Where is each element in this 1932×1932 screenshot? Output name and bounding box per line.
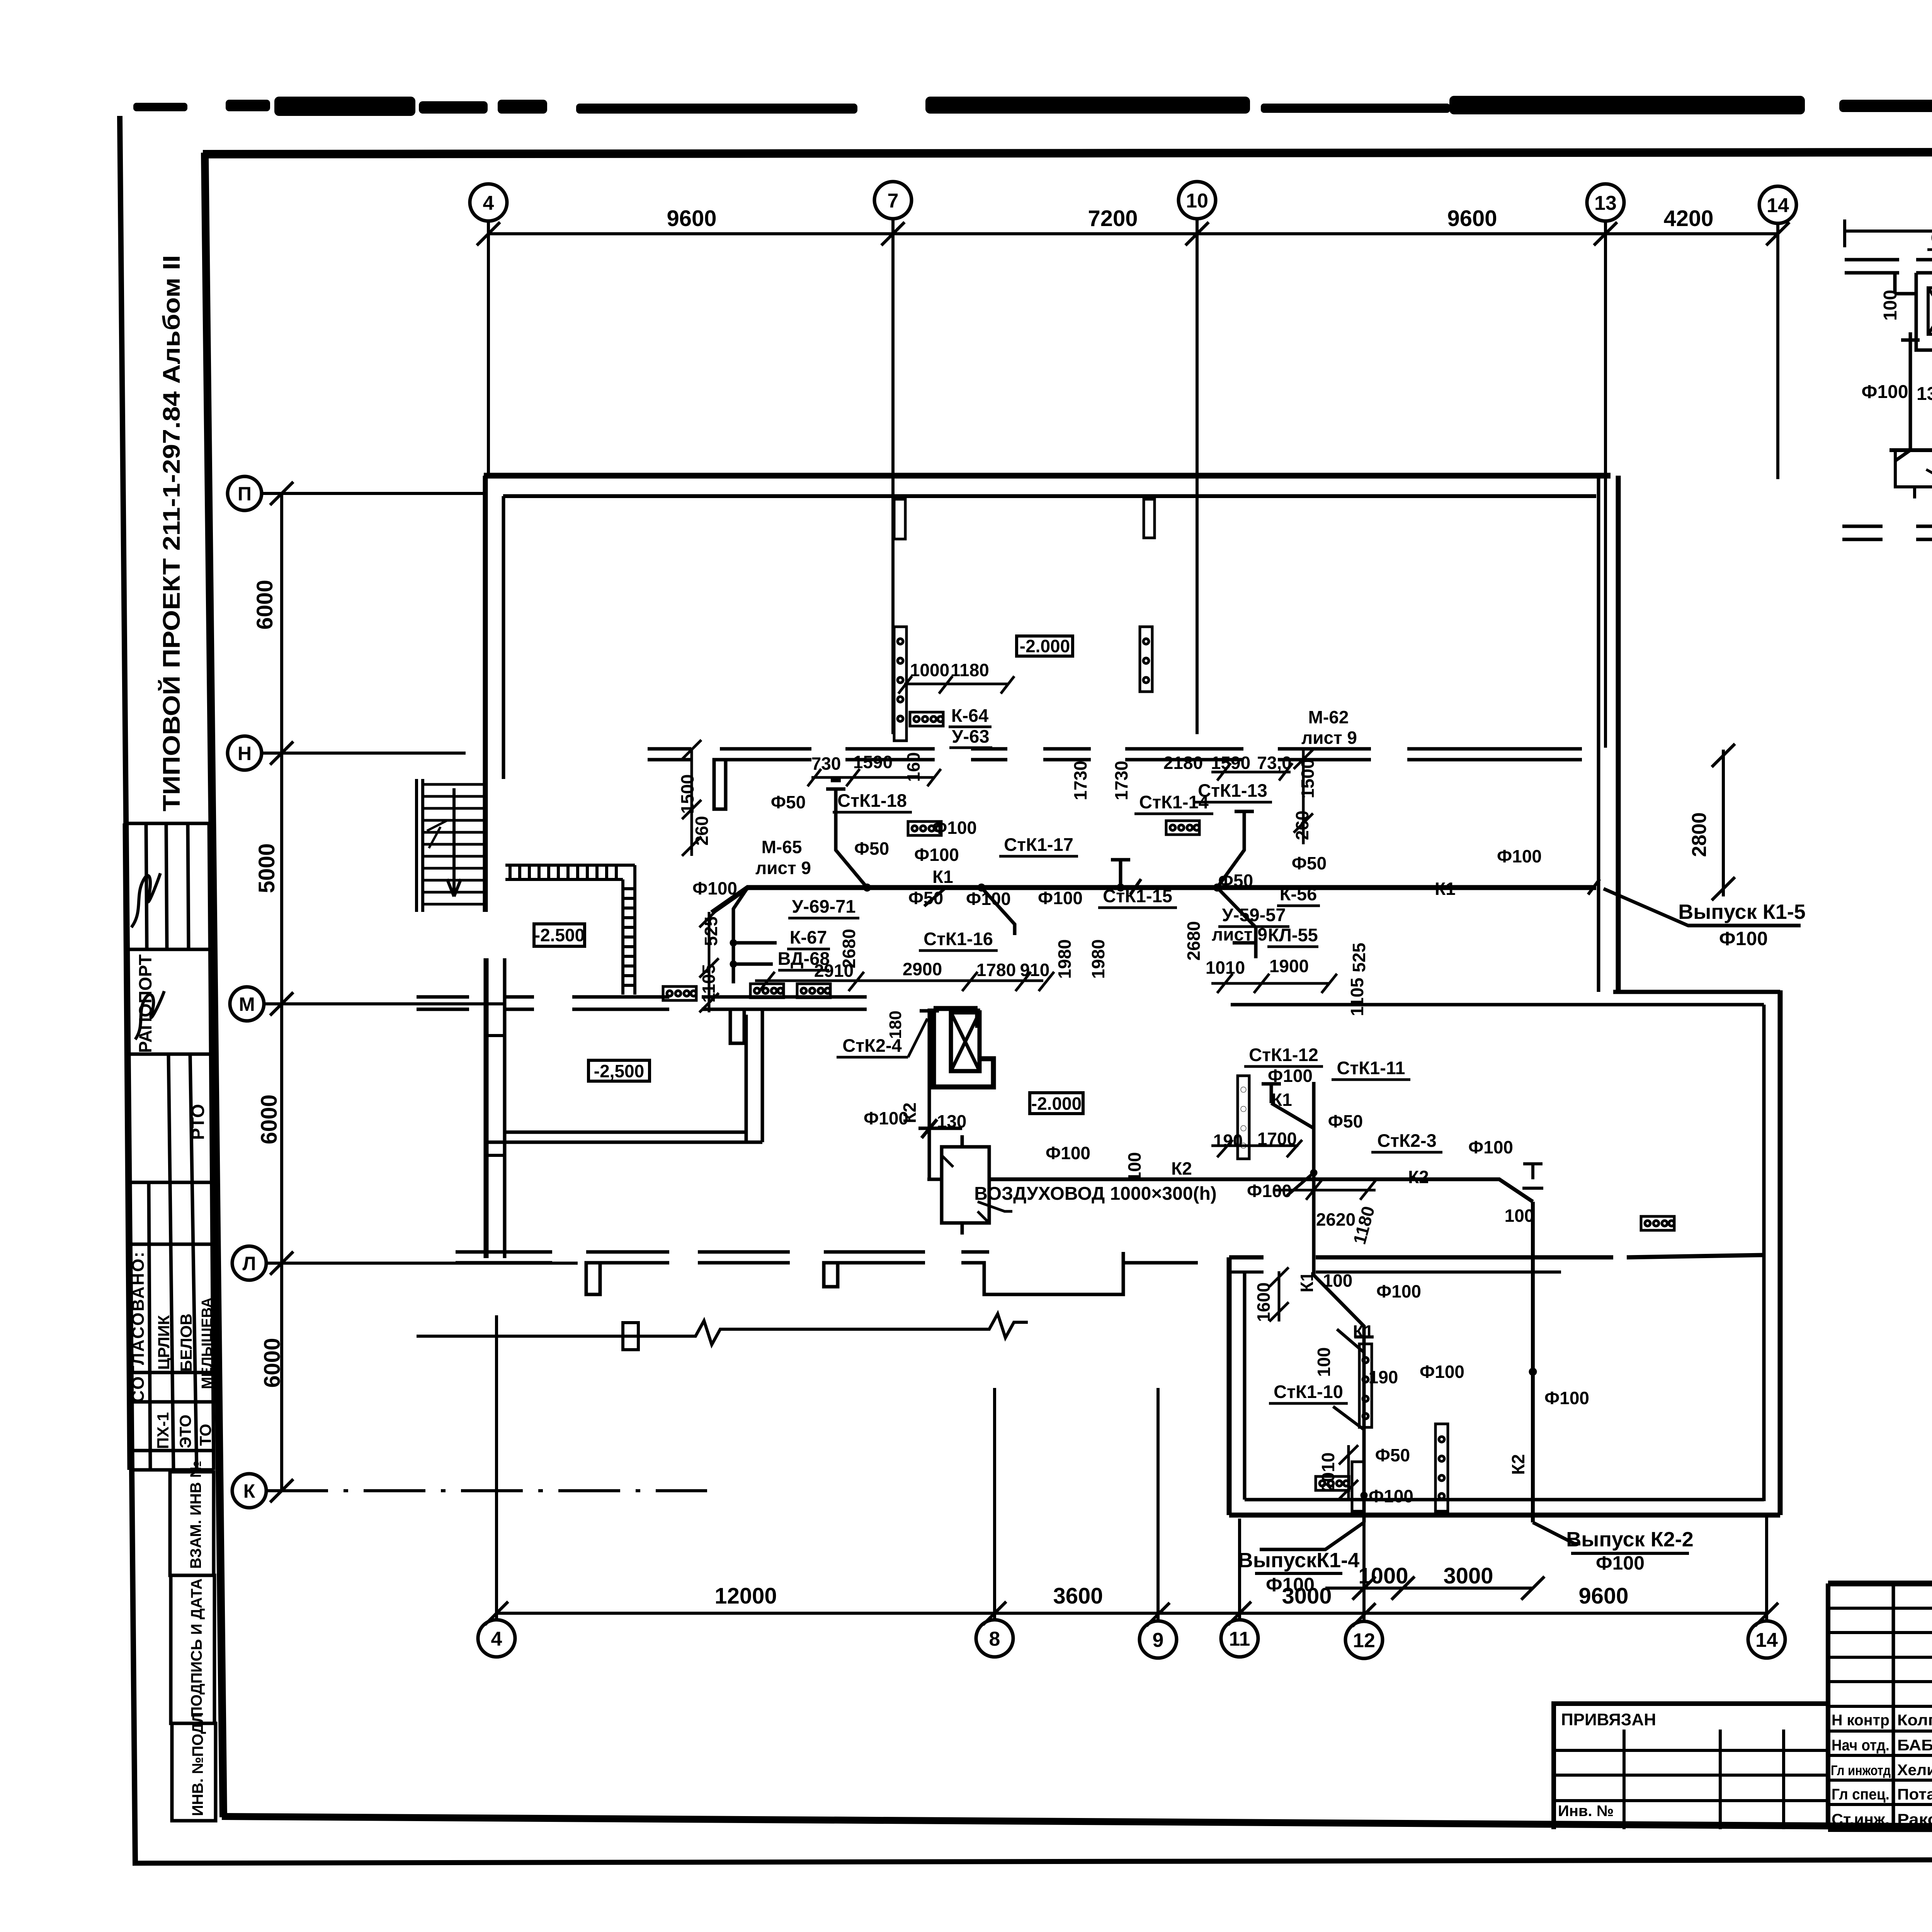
inner frame top	[203, 151, 1932, 154]
dim line 190-1700	[1211, 1140, 1302, 1157]
svg-text:Ф50: Ф50	[854, 838, 889, 859]
svg-text:73,0: 73,0	[1257, 753, 1292, 773]
room bottom wall outer	[1229, 1513, 1780, 1518]
K1 lower riser tee top	[1262, 1084, 1314, 1128]
sig row 6	[1828, 1730, 1932, 1733]
wall right upper outer	[1616, 476, 1621, 990]
hatched wall top band	[505, 865, 635, 879]
svg-text:ЦРЛИК: ЦРЛИК	[155, 1315, 173, 1370]
sig row 4	[1828, 1680, 1932, 1683]
row N pier wall e	[1043, 749, 1091, 760]
svg-text:100: 100	[1505, 1206, 1534, 1226]
svg-text:СтК2-3: СтК2-3	[1377, 1130, 1437, 1151]
row M wall seg c	[572, 997, 669, 1009]
svg-text:8: 8	[989, 1628, 1000, 1650]
K1 lower branch b	[1337, 1329, 1374, 1360]
east wing top inner	[1231, 1003, 1764, 1007]
svg-text:Л: Л	[242, 1253, 256, 1274]
svg-text:Ст.инж.: Ст.инж.	[1832, 1811, 1889, 1828]
svg-text:РАПОПОРТ: РАПОПОРТ	[135, 954, 155, 1053]
east wing right outer	[1778, 990, 1783, 1515]
sub tick c	[1521, 1577, 1544, 1600]
wall top outer	[484, 473, 1611, 479]
svg-text:1000: 1000	[1358, 1563, 1408, 1588]
svg-text:910: 910	[1020, 960, 1050, 980]
sig row 1	[1828, 1607, 1932, 1610]
tick 4 bottom	[485, 1602, 508, 1625]
svg-text:1500: 1500	[677, 774, 697, 814]
riser strip room a	[1359, 1344, 1372, 1427]
dim line 2910 row	[755, 972, 1054, 991]
svg-text:К-56: К-56	[1280, 884, 1317, 904]
svg-text:3000: 3000	[1443, 1563, 1493, 1588]
svg-text:9600: 9600	[1447, 206, 1497, 231]
leader vozduhovod	[978, 1202, 1012, 1211]
fixture box 6	[1166, 821, 1199, 835]
svg-text:100: 100	[1314, 1347, 1334, 1377]
svg-text:К-64: К-64	[951, 705, 989, 726]
stair cut mark	[427, 820, 448, 848]
svg-text:МЕЛЫШЕВА: МЕЛЫШЕВА	[199, 1298, 215, 1389]
scan band top 9	[1449, 96, 1805, 114]
axis circle 14 top	[1759, 186, 1796, 223]
sub dimension line bottom	[1325, 1587, 1533, 1590]
stamp table col line 4	[188, 823, 197, 1470]
axis line P	[262, 492, 483, 495]
svg-text:Ф50: Ф50	[1292, 853, 1327, 873]
scan band top 6	[576, 104, 857, 114]
K1 dot left cluster a	[730, 939, 737, 946]
riser strip room c	[1352, 1462, 1364, 1511]
sig row 2	[1828, 1631, 1932, 1634]
svg-text:Ф100: Ф100	[1497, 846, 1542, 866]
svg-text:4200: 4200	[1663, 206, 1713, 231]
stamp table row line 2	[125, 948, 210, 951]
svg-text:У-59-57: У-59-57	[1222, 905, 1286, 925]
svg-text:1590: 1590	[853, 752, 893, 772]
elevation box -2.000 mid	[1030, 1093, 1083, 1114]
stamp table row line 9	[130, 1468, 214, 1472]
svg-text:4: 4	[491, 1628, 502, 1650]
row N pier wall g	[1278, 749, 1371, 760]
svg-text:Ф100: Ф100	[966, 889, 1011, 909]
svg-text:К: К	[243, 1480, 255, 1502]
svg-text:-2,500: -2,500	[594, 1061, 644, 1081]
K1 lower dot b	[1361, 1492, 1367, 1499]
svg-text:Ф100: Ф100	[1247, 1181, 1292, 1201]
svg-text:-2.500: -2.500	[534, 925, 585, 945]
tick 14 top	[1766, 222, 1789, 245]
svg-text:Ф100: Ф100	[1268, 1066, 1313, 1086]
wall left pier tie 1	[486, 1034, 505, 1037]
axis line 4 bottom	[495, 1315, 498, 1620]
privyazan box	[1554, 1704, 1828, 1829]
variant duct stub	[1895, 450, 1932, 498]
svg-text:130: 130	[937, 1111, 967, 1131]
scan band top 7	[925, 97, 1250, 114]
room top wall outer seg3	[1627, 1255, 1764, 1257]
K1 riser StK1-18	[826, 781, 867, 888]
wall left outer upper	[483, 476, 488, 912]
svg-text:Ф100: Ф100	[1266, 1574, 1315, 1595]
svg-text:Ракова: Ракова	[1897, 1811, 1932, 1828]
inner frame left	[205, 153, 223, 1817]
axis line 7 top	[891, 219, 895, 734]
elevation box -2.500	[534, 924, 585, 946]
stamp table row line 1	[124, 822, 209, 825]
privyazan grid h2	[1554, 1774, 1828, 1777]
sig row 5	[1828, 1705, 1932, 1708]
sig table bottom	[1828, 1829, 1932, 1830]
axis line M	[264, 1002, 506, 1005]
sub room bottom wall	[486, 1132, 762, 1142]
svg-text:СтК1-17: СтК1-17	[1004, 834, 1073, 855]
scan band top 3	[274, 97, 415, 116]
svg-text:лист 9: лист 9	[755, 858, 811, 878]
break line lower left	[417, 1314, 1028, 1345]
svg-text:3600: 3600	[1053, 1583, 1103, 1609]
fixture box 1	[663, 986, 696, 1000]
wall right upper inner	[1597, 476, 1600, 992]
K1 dot left cluster b	[730, 961, 737, 968]
dim 2010 vert line	[1339, 1445, 1358, 1499]
axis circle M left	[230, 987, 264, 1021]
variant row L wall a	[1842, 526, 1883, 539]
svg-text:СтК1-16: СтК1-16	[923, 929, 993, 949]
svg-text:Гл спец.: Гл спец.	[1832, 1786, 1889, 1803]
svg-text:Ф100: Ф100	[914, 845, 959, 865]
privyazan grid v3	[1782, 1730, 1785, 1829]
svg-text:М: М	[239, 993, 255, 1015]
sig row 8	[1828, 1779, 1932, 1782]
stamp table row line 4	[127, 1181, 212, 1184]
row M wall seg d	[702, 997, 867, 1009]
room bottom wall inner	[1245, 1498, 1764, 1502]
K1 junction dot 2	[978, 884, 985, 891]
fixture box 4	[910, 712, 943, 726]
svg-text:1000: 1000	[910, 660, 949, 680]
svg-text:260: 260	[692, 816, 712, 846]
axis circle K left	[232, 1474, 266, 1508]
left dimension line	[280, 493, 283, 1491]
vypusk K1-4 leader	[1260, 1522, 1364, 1549]
svg-text:190: 190	[1369, 1367, 1398, 1387]
svg-text:2010: 2010	[1318, 1452, 1338, 1492]
wall left inner upper	[502, 496, 505, 779]
axis circle 12 bottom	[1345, 1621, 1383, 1658]
row L pier b	[586, 1252, 669, 1263]
svg-text:К1: К1	[1353, 1321, 1374, 1342]
K1 branch left cluster	[733, 888, 777, 983]
row N pier wall d	[971, 749, 1007, 760]
variant row L wall b	[1916, 526, 1932, 557]
room top wall inner seg1	[1229, 1270, 1264, 1274]
tick 10 top	[1185, 222, 1209, 245]
axis line 14 top	[1776, 223, 1779, 479]
K2 riser StK2-4	[918, 1009, 962, 1179]
axis line 13 top	[1604, 221, 1607, 748]
stamp table row line 6	[129, 1371, 213, 1374]
riser strip dots	[1241, 1087, 1246, 1092]
sig row 3	[1828, 1656, 1932, 1659]
room top wall inner seg2	[1316, 1270, 1561, 1274]
svg-text:СтК1-12: СтК1-12	[1249, 1044, 1318, 1065]
tick M	[270, 992, 293, 1015]
svg-text:14: 14	[1755, 1629, 1778, 1651]
svg-text:1600: 1600	[1253, 1282, 1274, 1322]
svg-text:6000: 6000	[257, 1094, 282, 1144]
dim line 1590-730 right	[1211, 763, 1293, 781]
svg-text:Ф50: Ф50	[1375, 1445, 1410, 1465]
svg-text:7200: 7200	[1088, 206, 1138, 231]
riser strip 1b	[894, 499, 905, 539]
sub tick b	[1391, 1577, 1415, 1600]
svg-text:-2.000: -2.000	[1020, 636, 1070, 656]
box PODPIS I DATA	[171, 1575, 214, 1723]
svg-text:730: 730	[811, 753, 841, 774]
axis circle P left	[228, 476, 262, 510]
svg-text:Гл инжотд: Гл инжотд	[1831, 1762, 1891, 1778]
svg-text:СтК1-4: СтК1-4	[1931, 228, 1932, 248]
fixture box 3	[797, 984, 830, 998]
pier stub row N	[714, 760, 726, 809]
svg-text:525: 525	[1349, 943, 1369, 973]
row N pier wall c	[845, 749, 935, 760]
stamp table row line 7	[129, 1400, 213, 1404]
axis line 10 top	[1196, 219, 1199, 734]
svg-text:2680: 2680	[839, 929, 859, 968]
pier stub row M	[730, 1009, 744, 1043]
stamp table row line 3	[126, 1053, 211, 1056]
svg-text:6000: 6000	[260, 1338, 285, 1388]
row L step wall	[961, 1252, 1198, 1294]
tick 9 bottom	[1146, 1603, 1170, 1626]
sig row 7	[1828, 1754, 1932, 1757]
dim line 1010-1900	[1211, 974, 1337, 993]
row N pier wall a	[648, 749, 691, 760]
svg-text:1105: 1105	[699, 964, 719, 1003]
row L pier d	[824, 1252, 925, 1263]
label vypusk K1-5	[1678, 900, 1805, 949]
axis circle L left	[232, 1246, 266, 1280]
variant row M wall b	[1916, 260, 1932, 273]
K1 junction dot 3	[1213, 884, 1221, 891]
svg-text:1590: 1590	[1211, 753, 1250, 773]
axis circle 14 bottom	[1748, 1621, 1785, 1658]
scan band top 4	[419, 101, 488, 114]
stair left rail	[417, 779, 423, 912]
row N pier wall f	[1125, 749, 1243, 760]
row L pier a	[456, 1252, 552, 1263]
pipe K2 vertical	[1531, 1202, 1535, 1522]
svg-text:СтК1-15: СтК1-15	[1103, 886, 1172, 906]
svg-text:ВОЗДУХОВОД 1000×300(h): ВОЗДУХОВОД 1000×300(h)	[974, 1184, 1217, 1204]
svg-text:ПРИВЯЗАН: ПРИВЯЗАН	[1561, 1710, 1656, 1729]
wall top inner	[503, 494, 1596, 498]
dim vert 1500-260 right	[1294, 748, 1313, 844]
svg-text:190: 190	[1213, 1131, 1243, 1151]
axis line 4 top	[487, 221, 490, 476]
outer border bottom	[133, 1859, 1932, 1863]
svg-text:13: 13	[1594, 192, 1617, 214]
axis line K	[266, 1489, 707, 1492]
wall left pier lower inner	[503, 958, 507, 1258]
fixture box 2	[750, 984, 784, 998]
svg-text:П: П	[238, 483, 252, 505]
variant duct leader	[1926, 469, 1932, 489]
K1 riser StK1-15	[1111, 860, 1130, 888]
K1 branch Phi50 mid	[924, 888, 946, 906]
svg-text:Инв. №: Инв. №	[1558, 1803, 1614, 1820]
room top wall outer seg2	[1316, 1255, 1613, 1260]
svg-text:БЕЛОВ: БЕЛОВ	[177, 1313, 195, 1372]
svg-text:14: 14	[1767, 194, 1789, 217]
axis circle N left	[228, 736, 262, 770]
svg-text:К1: К1	[932, 867, 953, 887]
K1 lower riser path	[1314, 1082, 1364, 1522]
sub room right wall	[746, 1009, 762, 1142]
row N pier wall h	[1407, 749, 1582, 760]
K2 top tee	[1522, 1164, 1543, 1188]
svg-text:Ф50: Ф50	[771, 792, 806, 812]
svg-text:Н контр: Н контр	[1832, 1712, 1889, 1729]
svg-text:1900: 1900	[1269, 956, 1309, 976]
east wing right inner	[1762, 1005, 1766, 1501]
svg-text:100: 100	[1124, 1152, 1145, 1182]
K1 lower branch c	[1333, 1406, 1364, 1430]
titleblock sig col 2	[1892, 1583, 1895, 1829]
svg-text:К-67: К-67	[790, 927, 827, 947]
tick P	[270, 482, 293, 505]
riser strip 1	[894, 627, 906, 741]
pipe K1 break tick	[1130, 879, 1141, 895]
axis circle 9 bottom	[1139, 1621, 1177, 1658]
svg-text:К1: К1	[1435, 879, 1456, 899]
svg-text:ВЗАМ. ИНВ №: ВЗАМ. ИНВ №	[187, 1461, 204, 1569]
svg-text:Ф100: Ф100	[1369, 1486, 1413, 1506]
pier stub row L 1	[586, 1263, 600, 1294]
axis line 14 bottom	[1765, 1517, 1768, 1621]
svg-text:Потапова: Потапова	[1897, 1786, 1932, 1803]
svg-text:РТО: РТО	[188, 1104, 208, 1140]
axis circle 4 top	[470, 184, 507, 221]
svg-text:СтК1-13: СтК1-13	[1198, 780, 1267, 801]
tick N	[270, 742, 293, 765]
svg-text:5000: 5000	[254, 843, 279, 893]
pipe K2 horizontal	[989, 1179, 1533, 1202]
tick L	[270, 1252, 293, 1275]
titleblock sig table left	[1826, 1583, 1830, 1829]
svg-text:ИНВ. №ПОДЛ: ИНВ. №ПОДЛ	[189, 1712, 206, 1816]
stamp table col line 3	[166, 823, 173, 1470]
axis circle 4 bottom	[478, 1620, 515, 1657]
wall left pier tie 2	[486, 1154, 505, 1157]
variant K2 left elbow	[1895, 332, 1920, 461]
svg-text:12000: 12000	[714, 1583, 777, 1609]
svg-text:ТИПОВОЙ ПРОЕКТ 211-1-297.84 Ал: ТИПОВОЙ ПРОЕКТ 211-1-297.84 Альбом II	[158, 255, 185, 811]
dim 2800 line	[1712, 744, 1735, 900]
dim 1600 vert line	[1269, 1267, 1289, 1321]
svg-text:10: 10	[1186, 190, 1208, 212]
vypusk K2-2 leader	[1533, 1522, 1580, 1544]
svg-text:1730: 1730	[1070, 761, 1090, 800]
axis circle 8 bottom	[976, 1620, 1013, 1657]
axis line L	[266, 1262, 578, 1265]
svg-text:9600: 9600	[667, 206, 716, 231]
svg-text:СтК1-11: СтК1-11	[1337, 1058, 1405, 1078]
tick K left	[270, 1479, 293, 1502]
box INV N PODL	[172, 1723, 216, 1821]
svg-text:СтК1-18: СтК1-18	[837, 790, 907, 811]
elevation box -2.000 top	[1017, 636, 1073, 656]
titleblock outer top	[1828, 1581, 1932, 1587]
stamp table col line 1	[124, 823, 129, 1470]
bottom dimension line	[497, 1612, 1767, 1615]
dim line 1000-1180 top	[898, 676, 1014, 694]
variant elevator cab	[1928, 288, 1932, 334]
svg-text:КЛ-55: КЛ-55	[1268, 925, 1318, 945]
svg-text:Н: Н	[238, 743, 252, 764]
riser strip StK1-12	[1238, 1076, 1249, 1159]
svg-text:2180: 2180	[1163, 753, 1203, 773]
svg-text:Ф100: Ф100	[1420, 1362, 1464, 1382]
pipe K1 end tick	[1588, 879, 1600, 895]
svg-text:СтК1-10: СтК1-10	[1274, 1381, 1343, 1402]
top dimension line	[488, 232, 1778, 235]
svg-text:130: 130	[1917, 384, 1932, 404]
K1 junction dot 4	[1117, 884, 1124, 891]
pipe K1 main line	[712, 888, 1596, 913]
scan band top 2	[226, 100, 270, 111]
svg-text:ПОДПИСЬ И ДАТА: ПОДПИСЬ И ДАТА	[188, 1578, 205, 1718]
svg-text:6000: 6000	[252, 580, 277, 629]
label vypusk K2-2	[1566, 1528, 1693, 1574]
privyazan grid v1	[1622, 1730, 1626, 1829]
svg-text:100: 100	[1880, 290, 1901, 321]
stamp table row line 5	[128, 1243, 212, 1246]
K1 lower dot a	[1310, 1169, 1317, 1176]
dim vert 525-1105 left	[699, 908, 719, 1012]
svg-text:Ф100: Ф100	[692, 878, 737, 898]
signature squiggle 1	[131, 873, 160, 927]
svg-text:БАБИ Н: БАБИ Н	[1897, 1737, 1932, 1754]
privyazan grid v2	[1719, 1730, 1722, 1829]
svg-text:Ф50: Ф50	[1218, 871, 1253, 891]
axis line 9 bottom	[1156, 1388, 1160, 1621]
axis circle 13 top	[1587, 184, 1624, 221]
svg-text:М-62: М-62	[1308, 707, 1349, 727]
axis line N	[262, 752, 466, 755]
axis line 8 bottom	[993, 1388, 996, 1620]
room bottom-right left outer	[1227, 1257, 1232, 1515]
svg-text:1105: 1105	[1347, 978, 1367, 1016]
svg-text:180: 180	[886, 1010, 905, 1039]
svg-text:ПХ-1: ПХ-1	[154, 1412, 172, 1449]
hatched wall right band	[623, 865, 635, 995]
pier stub row L 2	[824, 1263, 838, 1287]
tick 7 top	[881, 222, 905, 245]
svg-text:1700: 1700	[1257, 1129, 1297, 1149]
stair treads	[423, 784, 485, 904]
svg-text:Выпуск К2-2: Выпуск К2-2	[1566, 1528, 1693, 1551]
duct corner ticks	[942, 1155, 989, 1223]
svg-text:лист 9: лист 9	[1301, 728, 1357, 748]
room top wall outer seg1	[1229, 1255, 1264, 1260]
svg-text:1180: 1180	[951, 660, 989, 680]
svg-text:4: 4	[483, 192, 494, 214]
svg-text:ВыпускК1-4: ВыпускК1-4	[1238, 1549, 1359, 1572]
svg-text:Ф50: Ф50	[1328, 1111, 1363, 1131]
